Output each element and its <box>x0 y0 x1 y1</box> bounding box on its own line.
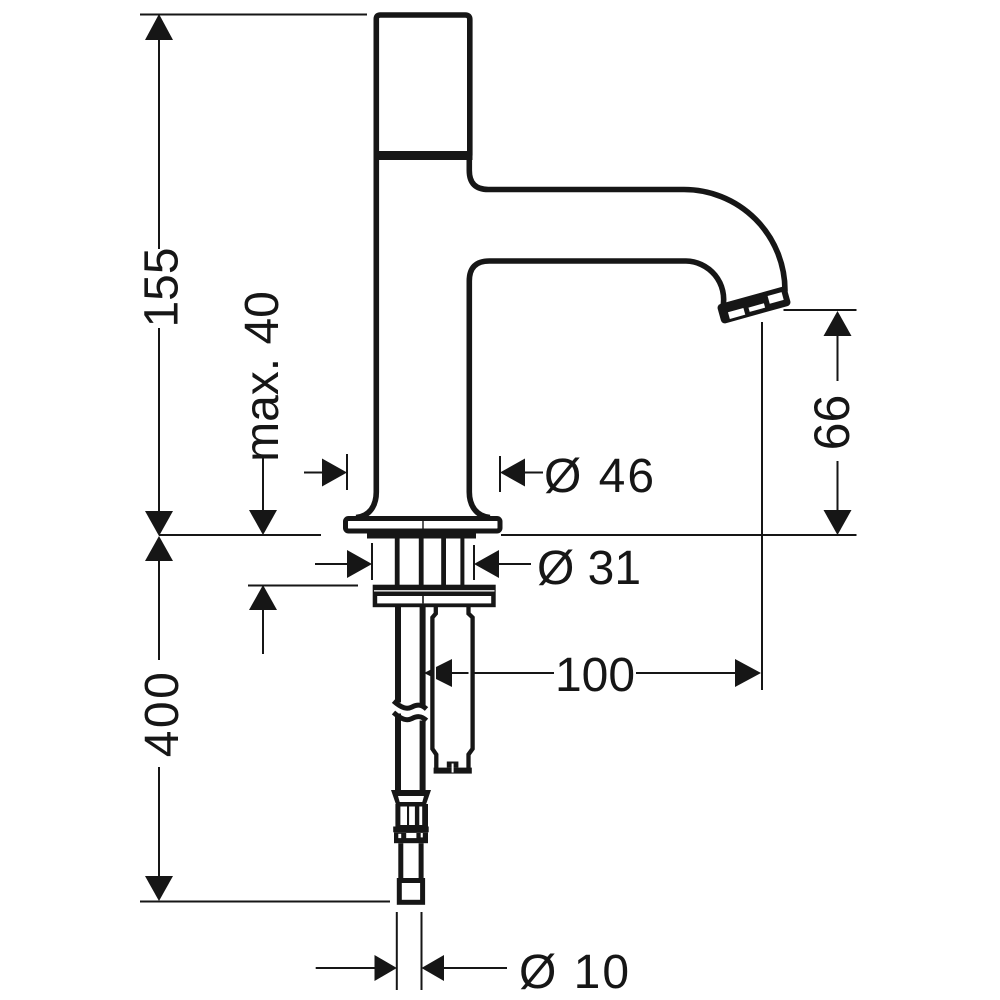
supply pipe lower <box>398 714 423 791</box>
hose ribbed connector <box>395 804 428 827</box>
label diameter 10 <box>519 946 631 999</box>
hose collar band <box>393 827 429 833</box>
label 100 <box>555 649 635 702</box>
svg-text:Ø 31: Ø 31 <box>537 542 641 595</box>
cartridge body <box>432 605 472 770</box>
label diameter 46 <box>544 450 656 503</box>
spout aerator <box>717 286 792 325</box>
dimension line max 40 <box>249 455 277 654</box>
svg-text:100: 100 <box>555 649 635 702</box>
hose pipe lower <box>401 843 421 878</box>
extension line bottom (400 dim) <box>140 901 390 903</box>
dimension line 400 <box>145 536 173 901</box>
mounting surface line <box>159 534 857 536</box>
hose end cap <box>399 881 422 903</box>
hose flare connector <box>391 790 431 806</box>
svg-text:66: 66 <box>804 395 860 451</box>
pipe break symbol <box>394 701 427 721</box>
dimension line 66 <box>824 311 852 535</box>
faucet body left wall <box>356 158 376 518</box>
dimension diameter 31 <box>315 543 531 580</box>
threaded shank lines <box>397 538 462 585</box>
label 66 <box>804 395 860 451</box>
faucet body right wall and spout top <box>469 158 785 293</box>
faucet joint bar <box>374 151 473 160</box>
svg-text:Ø 46: Ø 46 <box>544 450 656 503</box>
dimension line 155 <box>145 14 173 536</box>
spout underside and body lower right wall <box>469 261 723 518</box>
dimension 100 <box>424 659 761 687</box>
mounting nut <box>373 585 496 608</box>
supply pipe upper <box>398 606 423 706</box>
extension line counter bottom <box>248 585 358 587</box>
svg-text:max. 40: max. 40 <box>236 291 289 462</box>
assembly centerline ticks <box>422 519 424 593</box>
hose lower band with dashes <box>394 832 428 843</box>
faucet handle section <box>376 15 470 156</box>
base plate <box>346 519 501 532</box>
extension line top (155 dim) <box>140 14 367 16</box>
base gasket bar <box>367 533 476 539</box>
label max. 40 <box>236 291 289 462</box>
svg-text:400: 400 <box>136 670 189 758</box>
label 155 <box>136 247 189 327</box>
dimension diameter 46 <box>304 454 543 492</box>
label diameter 31 <box>537 542 641 595</box>
svg-text:Ø 10: Ø 10 <box>519 946 631 999</box>
svg-text:155: 155 <box>136 247 189 327</box>
cartridge bottom bar <box>434 762 472 774</box>
extension line outlet (66 dim) <box>784 309 857 311</box>
dimension diameter 10 <box>316 912 507 990</box>
label 400 <box>136 670 189 758</box>
spout outlet centerline <box>761 322 763 690</box>
